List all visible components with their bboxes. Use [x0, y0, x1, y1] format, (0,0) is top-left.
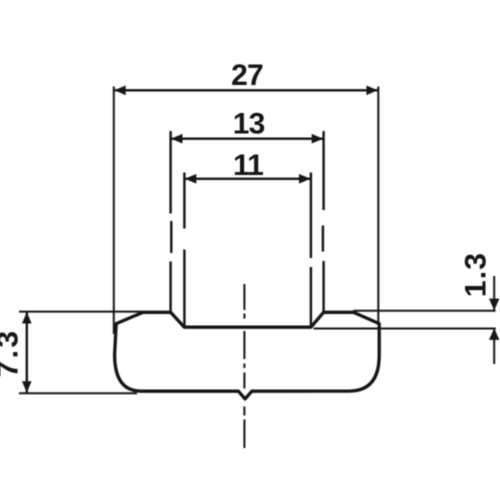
- centerline: [243, 284, 245, 448]
- extension line 27 left: [113, 87, 115, 335]
- stem outer right line (broken): [322, 131, 325, 312]
- dimension 27 line: [114, 89, 379, 91]
- interior step (counterbore bottom): [171, 312, 324, 327]
- dimension 13 line: [171, 137, 324, 139]
- body outline: [115, 312, 380, 399]
- svg-text:11: 11: [233, 149, 263, 182]
- extension line 1.3 bottom: [314, 328, 496, 330]
- dimension 11 line: [184, 178, 311, 180]
- svg-text:1.3: 1.3: [460, 252, 493, 297]
- arrow 13 left: [171, 134, 183, 144]
- arrow 11 left: [185, 174, 197, 184]
- extension line 7.3 top: [19, 311, 143, 313]
- stem inner left line (broken): [183, 173, 185, 328]
- arrow 7.3 top: [22, 312, 32, 324]
- arrow 27 right: [366, 86, 378, 96]
- extension line 7.3 bottom: [19, 392, 137, 394]
- stem outer left line (broken): [169, 131, 172, 312]
- dimension 7.3 line: [26, 312, 28, 394]
- arrow 1.3 bottom: [489, 328, 499, 340]
- stem inner right line (broken): [310, 173, 312, 328]
- arrow 11 right: [299, 174, 311, 184]
- extension line 27 right: [377, 87, 379, 323]
- dimension 1.3 line: [493, 276, 495, 310]
- arrow 27 left: [114, 86, 126, 96]
- arrow 1.3 top: [489, 299, 499, 311]
- svg-text:27: 27: [231, 59, 263, 92]
- arrow 7.3 bottom: [22, 381, 32, 393]
- svg-text:7.3: 7.3: [0, 329, 25, 378]
- svg-text:13: 13: [233, 108, 265, 141]
- arrow 13 right: [312, 134, 324, 144]
- extension line 1.3 top: [353, 310, 495, 312]
